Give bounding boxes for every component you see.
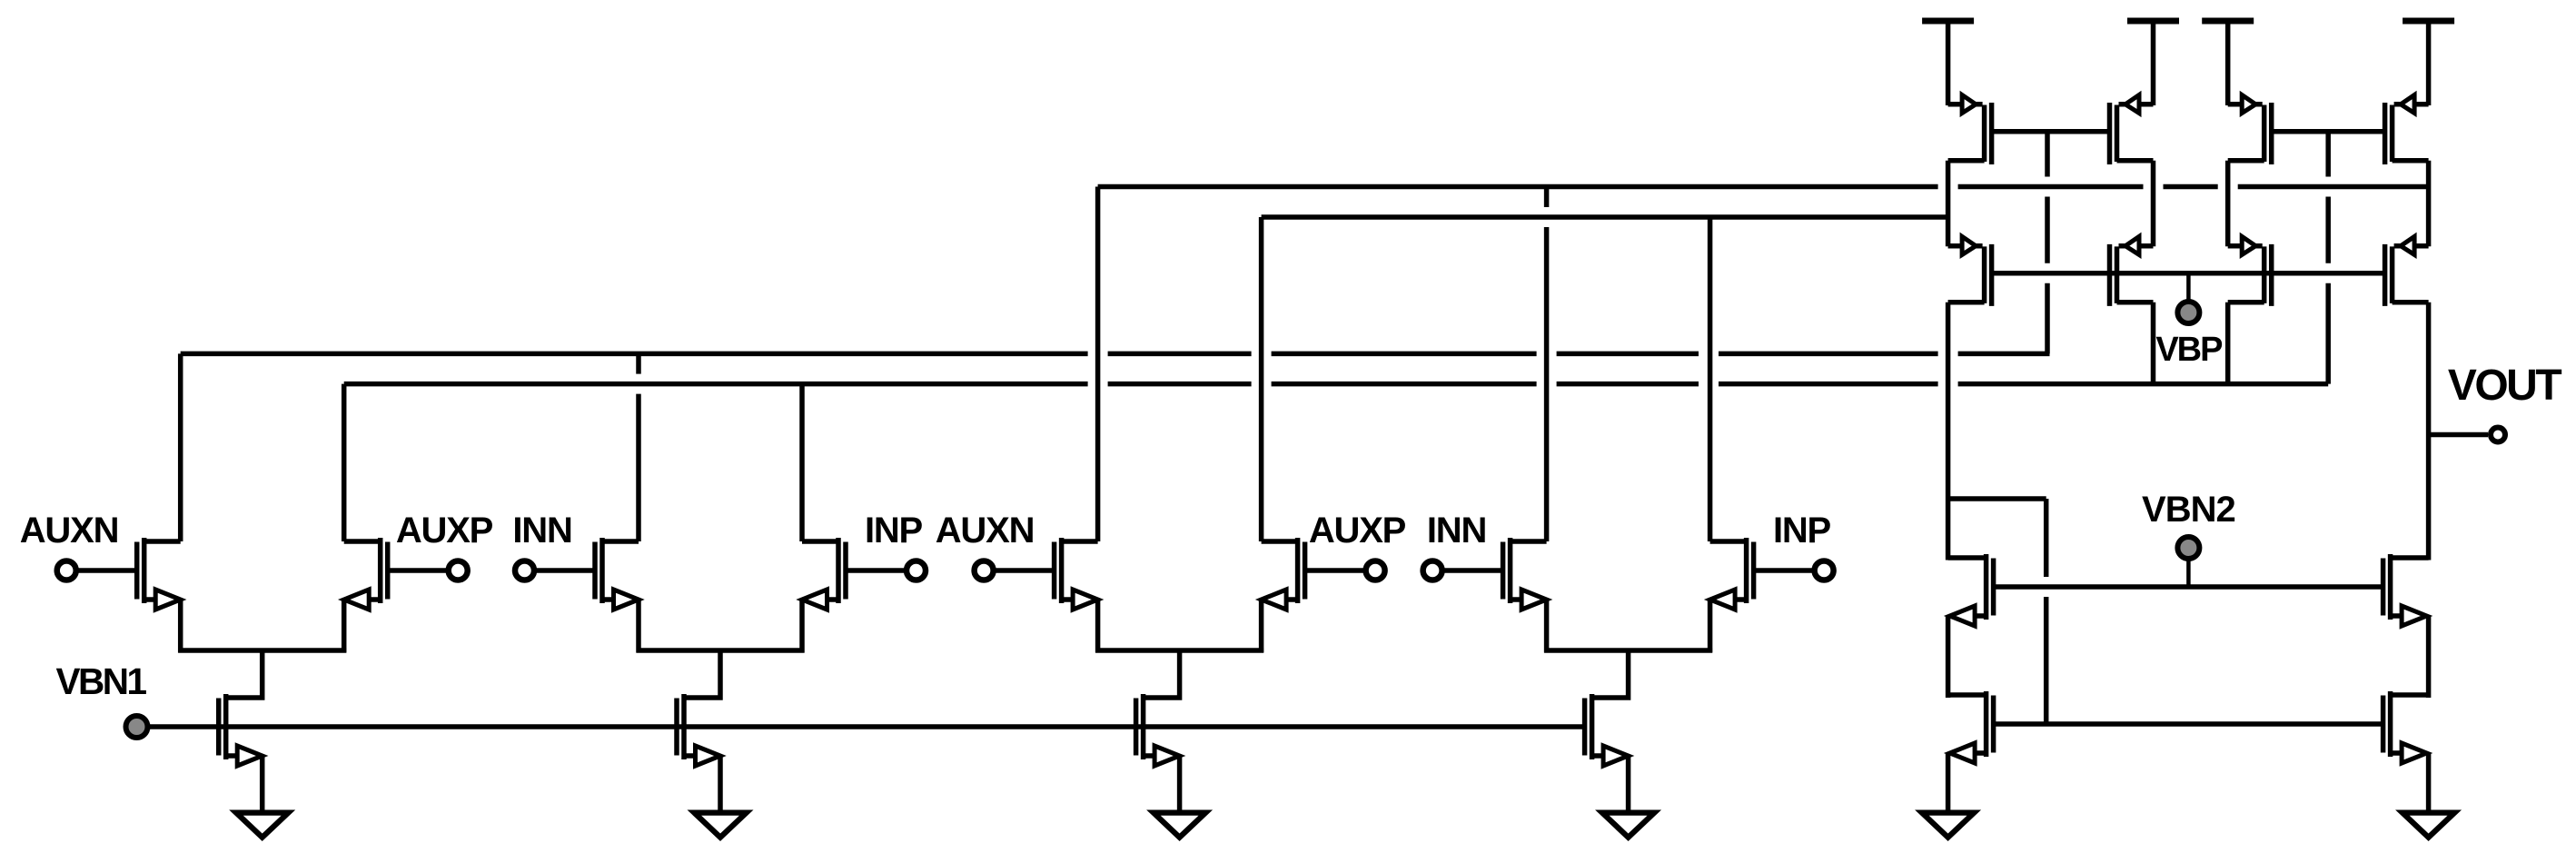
svg-text:AUXP: AUXP: [1309, 511, 1406, 551]
node label INN: [512, 511, 571, 551]
terminal VBP: [2177, 273, 2199, 323]
terminal INN pair 4: [1423, 561, 1442, 580]
transistor N3 (NMOS cascode, upper): [2383, 554, 2429, 698]
svg-text:VOUT: VOUT: [2448, 362, 2562, 410]
ground (tail pair 4): [1595, 810, 1661, 842]
svg-text:INP: INP: [865, 511, 923, 551]
terminal AUXN pair 3: [975, 561, 994, 580]
node label VOUT: [2448, 362, 2562, 410]
svg-text:INN: INN: [1427, 511, 1486, 551]
wire source junction pair 1: [178, 648, 346, 653]
wire drain M2B to bus: [799, 384, 805, 541]
wire drain M1B to bus: [342, 384, 347, 541]
wire bus: pair3/4 right drains to left cascode column (y239): [1262, 214, 1948, 220]
transistor M1A (AUXN input, pair 1): [78, 538, 181, 653]
svg-text:INP: INP: [1773, 511, 1831, 551]
VDD supply symbol above P2: [2127, 21, 2179, 105]
wire gate link, right top PMOS pair (P5-P6): [2272, 129, 2385, 134]
ground (tail pair 1): [229, 810, 295, 842]
terminal VBN2: [2177, 537, 2199, 587]
wire P6 drain to P8 source: [2426, 161, 2432, 246]
ground (below N2): [1915, 810, 1981, 842]
wire drain M4A to bus: [1544, 187, 1550, 542]
svg-text:AUXN: AUXN: [936, 511, 1035, 551]
node label VBP: [2155, 331, 2223, 369]
terminal VBN1: [126, 716, 148, 738]
wire P8 drain down to N3 drain (VOUT column): [2426, 303, 2432, 560]
wire cascode PMOS gate line (VBP net): [1992, 271, 2385, 276]
transistor P6 (PMOS mirror, top row): [2385, 95, 2429, 165]
terminal AUXP pair 1: [449, 561, 468, 580]
node label AUXP: [396, 511, 493, 551]
wire drain M2A to bus: [636, 353, 641, 541]
wire bus: pair1/2 right drains to right PMOS gate link (y422): [344, 382, 2329, 387]
wire P2 drain to P4 source: [2151, 161, 2156, 246]
transistor P2 (PMOS mirror, top row): [2110, 95, 2154, 165]
VDD supply symbol above P5: [2202, 21, 2254, 105]
wire left column to N2/N4 gate line (hook via x2253): [1948, 499, 2046, 724]
VDD supply symbol above P6: [2403, 21, 2454, 105]
wire drain M3A to bus: [1095, 187, 1101, 542]
svg-text:AUXN: AUXN: [20, 511, 119, 551]
wire gate drop, right pair gates to bus y422: [2325, 132, 2331, 384]
transistor M2B (INP input, pair 2): [802, 538, 905, 653]
transistor M3B (AUXP input, pair 3): [1262, 538, 1364, 653]
transistor M4A (INN input, pair 4): [1444, 538, 1547, 653]
transistor M3A (AUXN input, pair 3): [996, 538, 1098, 653]
transistor P8 (PMOS cascode, second row): [2385, 236, 2429, 306]
terminal AUXP pair 3: [1366, 561, 1385, 580]
ground (tail pair 2): [688, 810, 754, 842]
node label AUXP: [1309, 511, 1406, 551]
terminal INP pair 2: [907, 561, 926, 580]
terminal AUXN pair 1: [57, 561, 76, 580]
wire P5 drain to P7 source: [2225, 161, 2231, 246]
transistor N2 (NMOS current sink, lower): [1948, 691, 1994, 815]
transistor M2A (INN input, pair 2): [537, 538, 639, 653]
wire P1 drain to P3 source: [1946, 161, 1951, 246]
node label INP: [1773, 511, 1831, 551]
transistor N4 (NMOS current sink, lower): [2383, 691, 2429, 815]
wire VOUT stub: [2429, 432, 2488, 438]
svg-text:AUXP: AUXP: [396, 511, 493, 551]
transistor P1 (PMOS mirror, top row): [1948, 95, 1992, 165]
transistor P3 (PMOS cascode, second row): [1948, 236, 1992, 306]
wire N1/N3 gate line (VBN2 net): [1994, 584, 2383, 590]
wire P4 drain down to bus y422: [2151, 303, 2156, 384]
wire P7 drain down to bus y422: [2225, 303, 2231, 384]
terminal INP pair 4: [1815, 561, 1834, 580]
transistor P7 (PMOS cascode, second row): [2228, 236, 2272, 306]
transistor M1T (tail current source, pair 1): [219, 650, 263, 815]
wire N2/N4 gate line: [1994, 721, 2383, 727]
wire source junction pair 2: [637, 648, 805, 653]
transistor P5 (PMOS mirror, top row): [2228, 95, 2272, 165]
node label VBN1: [55, 660, 146, 702]
terminal INN pair 2: [515, 561, 534, 580]
wire gate drop, left pair gates to bus y389: [2045, 132, 2050, 354]
transistor N1 (NMOS cascode, upper): [1948, 554, 1994, 698]
wire drain M3B to bus: [1259, 217, 1264, 541]
transistor P4 (PMOS cascode, second row): [2110, 236, 2154, 306]
transistor M4B (INP input, pair 4): [1710, 538, 1813, 653]
node label AUXN: [20, 511, 119, 551]
wire source junction pair 4: [1544, 648, 1712, 653]
transistor M2T (tail current source, pair 2): [677, 650, 720, 815]
wire bus: pair1/2 left drains to PMOS gate link (y389): [181, 352, 2050, 357]
wire bus: pair3/4 left drains to VOUT cascode column (y205): [1098, 184, 2429, 190]
node label VBN2: [2142, 490, 2235, 530]
svg-text:INN: INN: [512, 511, 571, 551]
node label INP: [865, 511, 923, 551]
wire source junction pair 3: [1095, 648, 1263, 653]
wire gate link, left top PMOS pair (P1-P2): [1992, 129, 2110, 134]
transistor M1B (AUXP input, pair 1): [344, 538, 447, 653]
transistor M4T (tail current source, pair 4): [1585, 650, 1629, 815]
ground (tail pair 3): [1146, 810, 1213, 842]
wire VBN1 bias rail: [150, 724, 1586, 729]
terminal VOUT: [2491, 428, 2505, 442]
transistor M3T (tail current source, pair 3): [1136, 650, 1180, 815]
wire drain M1A to bus: [178, 353, 183, 541]
node label INN: [1427, 511, 1486, 551]
svg-text:VBN1: VBN1: [55, 660, 146, 702]
svg-text:VBN2: VBN2: [2142, 490, 2235, 530]
wire drain M4B to bus: [1708, 217, 1713, 541]
node label AUXN: [936, 511, 1035, 551]
VDD supply symbol above P1: [1922, 21, 1974, 105]
ground (below N4): [2395, 810, 2462, 842]
wire P3 drain down to N1 drain (left cascode column): [1946, 303, 1951, 560]
svg-text:VBP: VBP: [2155, 331, 2223, 369]
